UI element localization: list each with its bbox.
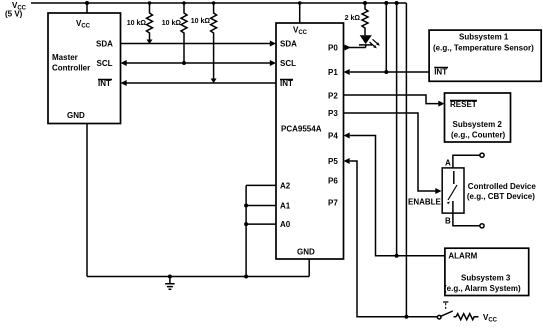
node Vcc (5 V) supply label: [5, 1, 27, 19]
svg-text:VCC: VCC: [76, 19, 91, 30]
wire Vcc vertical 3: [405, 3, 407, 317]
svg-text:RESET: RESET: [450, 100, 477, 109]
resistor R4 2 kOhm LED series: [362, 3, 368, 35]
junction dot master Vcc: [85, 1, 89, 5]
junction dot P1/Vcc vertical: [384, 70, 388, 74]
svg-text:GND: GND: [67, 111, 85, 120]
overline master INT: [98, 79, 112, 81]
wire terminal A: [453, 155, 480, 168]
op-amp U2 PCA9554A box: [276, 23, 344, 259]
svg-text:Controlled Device: Controlled Device: [468, 182, 537, 191]
svg-text:Controller: Controller: [52, 64, 90, 73]
switch S1 controlled device box: [442, 168, 464, 213]
svg-text:A1: A1: [280, 202, 291, 211]
svg-text:B: B: [445, 217, 451, 226]
svg-text:ENABLE: ENABLE: [408, 198, 442, 207]
svg-text:(5 V): (5 V): [5, 10, 23, 19]
wire master GND drop: [86, 124, 88, 277]
svg-text:SDA: SDA: [280, 40, 297, 49]
svg-text:A2: A2: [280, 182, 291, 191]
svg-text:P4: P4: [328, 132, 338, 141]
node ENABLE label: [408, 198, 442, 207]
svg-text:INT: INT: [434, 68, 447, 77]
wire Vcc drop to master controller: [86, 3, 88, 13]
svg-text:P0: P0: [328, 44, 338, 53]
LED D1: [360, 35, 372, 44]
wire PCA GND drop: [308, 259, 310, 277]
svg-text:SDA: SDA: [96, 40, 113, 49]
svg-text:VCC: VCC: [293, 26, 308, 37]
svg-text:A0: A0: [280, 220, 291, 229]
wire Vcc rail: [31, 2, 406, 4]
svg-text:2 kΩ: 2 kΩ: [345, 15, 361, 22]
svg-text:(e.g., CBT Device): (e.g., CBT Device): [467, 192, 535, 201]
wire terminal B: [453, 213, 480, 226]
node Vcc label bottom right: [483, 313, 498, 324]
subsystem 2 RESET box: [445, 93, 511, 142]
wire P3 to ENABLE: [344, 113, 436, 191]
resistor R5 at switch: [456, 314, 478, 320]
svg-text:P3: P3: [328, 109, 338, 118]
ground symbol: [169, 277, 171, 284]
svg-text:P5: P5: [328, 157, 338, 166]
svg-text:P1: P1: [328, 68, 338, 77]
wire P0 to LED: [344, 47, 366, 49]
resistor R3 10 kOhm pull-up INT: [211, 3, 217, 83]
svg-text:Subsystem 1: Subsystem 1: [459, 33, 509, 42]
subsystem 1 box: [429, 30, 541, 81]
wire Vcc vertical 2: [396, 3, 398, 256]
svg-text:(e.g., Temperature Sensor): (e.g., Temperature Sensor): [433, 44, 534, 53]
switch S2 momentary to Vcc: [437, 315, 441, 319]
op-amp U1 master controller box: [48, 13, 121, 124]
svg-text:Subsystem 3: Subsystem 3: [461, 274, 511, 283]
wire ground bus: [87, 276, 309, 278]
wire P1 to Subsystem 1 INT: [350, 71, 429, 73]
svg-text:(e.g., Alarm System): (e.g., Alarm System): [444, 284, 521, 293]
node A2 A1 A0 tie to ground: [246, 185, 276, 276]
svg-text:INT: INT: [98, 79, 111, 88]
svg-text:INT: INT: [280, 79, 293, 88]
svg-text:Subsystem 2: Subsystem 2: [453, 120, 503, 129]
overline PCA INT: [280, 79, 293, 81]
switch blade inside CBT box: [453, 171, 455, 184]
wire SCL line: [126, 62, 270, 64]
wire INT line: [126, 82, 276, 84]
svg-text:P7: P7: [328, 199, 338, 208]
wire Vcc vertical 1: [385, 3, 387, 72]
svg-text:10 kΩ: 10 kΩ: [191, 18, 211, 25]
svg-text:ALARM: ALARM: [448, 252, 477, 261]
wire Vcc drop to PCA9554A: [299, 3, 301, 23]
svg-text:Master: Master: [52, 53, 78, 62]
overline subsystem1 INT: [434, 67, 448, 69]
node Controlled Device label: [467, 182, 536, 201]
svg-text:10 kΩ: 10 kΩ: [162, 20, 182, 27]
wire P4 to ALARM: [350, 136, 445, 256]
subsystem 3 ALARM box: [445, 248, 529, 295]
svg-text:PCA9554A: PCA9554A: [281, 125, 322, 134]
wire SDA line: [121, 43, 271, 45]
svg-text:(e.g., Counter): (e.g., Counter): [451, 131, 506, 140]
svg-text:P2: P2: [328, 92, 338, 101]
svg-text:SCL: SCL: [97, 59, 113, 68]
resistor R1 10 kOhm pull-up SDA: [147, 3, 153, 44]
svg-text:10 kΩ: 10 kΩ: [127, 20, 147, 27]
overline RESET: [450, 100, 477, 102]
svg-text:A: A: [445, 159, 451, 168]
svg-text:P6: P6: [328, 177, 338, 186]
resistor R2 10 kOhm pull-up SCL: [181, 3, 187, 63]
svg-text:VCC: VCC: [483, 313, 498, 324]
wire P5 to switch: [350, 161, 437, 317]
wire P2 to RESET: [344, 95, 439, 104]
svg-text:SCL: SCL: [280, 59, 296, 68]
svg-text:GND: GND: [297, 248, 315, 257]
